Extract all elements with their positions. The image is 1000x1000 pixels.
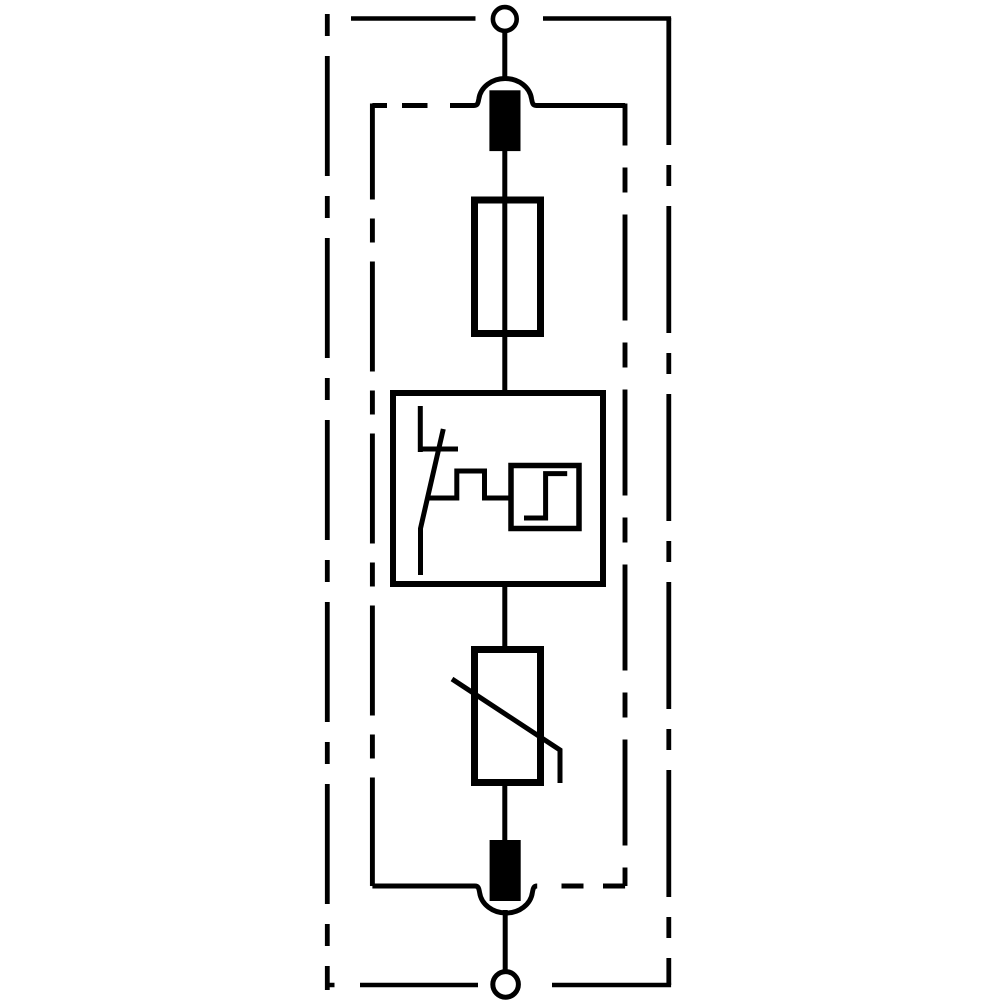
inner module boundary, left edge (dash-dot) — [370, 104, 375, 887]
wire, lower plug socket to bottom terminal — [503, 910, 508, 973]
disconnect switch blade (diagonal) with lower lead — [421, 429, 444, 575]
wire, upper plug contact to fuse, and through fuse body to monitoring box — [502, 151, 507, 391]
fuse F1 (rectangle crossed by wire) — [475, 200, 541, 334]
terminal node, bottom — [493, 972, 519, 998]
outer enclosure border, left edge (dash-dot) — [325, 14, 330, 990]
plug-in contact, lower (black bar) — [490, 840, 521, 901]
wire, monitoring box to varistor — [502, 587, 507, 649]
plug-in contact, upper (black bar) — [489, 90, 520, 151]
disconnect switch upper lead inside box — [418, 406, 423, 452]
monitoring / disconnect device box U1 — [393, 393, 603, 584]
trigger / surge monitoring unit box — [511, 466, 579, 529]
varistor diagonal stroke with tail — [452, 679, 560, 783]
step response symbol inside trigger box — [524, 474, 567, 518]
varistor RV1 body — [475, 650, 541, 783]
inner module boundary, top edge with plug socket arch (dash-dot) — [372, 79, 625, 106]
inner module boundary, right edge (dash-dot) — [623, 104, 628, 887]
wire, top terminal to upper plug contact — [502, 31, 507, 81]
inner module boundary, bottom edge with plug socket arch (dash-dot) — [372, 886, 625, 913]
outer enclosure border, bottom edge (dash-dot) — [325, 983, 671, 988]
wire, varistor to lower plug contact — [502, 786, 507, 843]
actuating linkage step line to trigger unit — [428, 471, 509, 498]
disconnect switch fixed contact tick — [418, 447, 458, 452]
outer enclosure border, top edge (dash-dot) — [351, 16, 671, 21]
outer enclosure border, right edge (dash-dot) — [666, 18, 671, 985]
terminal node, top — [493, 7, 517, 31]
